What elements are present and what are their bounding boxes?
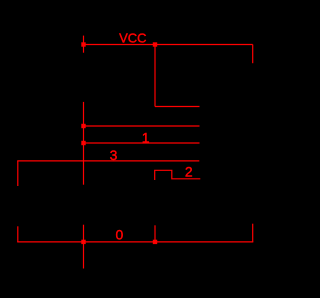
- svg-text:3: 3: [110, 147, 118, 163]
- svg-text:VCC: VCC: [119, 31, 146, 46]
- svg-text:1: 1: [142, 130, 150, 146]
- svg-text:2: 2: [185, 164, 193, 180]
- svg-text:0: 0: [116, 227, 124, 243]
